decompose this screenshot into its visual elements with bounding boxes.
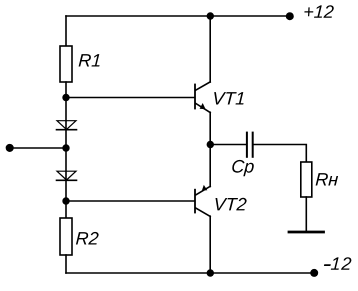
resistor Rn <box>301 162 312 197</box>
Cp right plate <box>252 133 254 157</box>
resistor R2 <box>60 218 72 255</box>
label R1 <box>79 54 100 66</box>
wire VT2 collector to -12 rail <box>209 216 211 273</box>
node VT2 base junction <box>62 197 69 204</box>
wire capacitor to Rn <box>254 145 307 163</box>
wire Rn to ground <box>305 197 307 232</box>
VT1 collector lead <box>196 82 211 90</box>
node output junction <box>207 141 214 148</box>
VT2 base bar <box>194 190 196 213</box>
node input junction <box>62 144 69 151</box>
VT1 base bar <box>194 85 196 109</box>
label VT2 <box>216 198 247 211</box>
label R2 <box>76 232 99 245</box>
label Rн <box>316 173 339 185</box>
wire VT1 base <box>66 97 194 99</box>
node -12 terminal <box>310 269 318 277</box>
wire top rail +12 <box>66 15 289 17</box>
wire output node to VT2 emitter <box>209 145 211 187</box>
node +12 rail junction <box>207 12 214 19</box>
resistor R1 <box>60 46 72 82</box>
diode VD1 <box>57 121 77 130</box>
label +12 <box>304 5 333 18</box>
wire VT2 base <box>66 200 194 202</box>
node +12 terminal <box>286 12 294 20</box>
transistor VT1 <box>195 16 210 145</box>
wire R2 to bottom rail <box>65 255 67 273</box>
label VT1 <box>214 92 243 104</box>
node -12 rail junction <box>207 269 214 276</box>
ground <box>289 231 324 234</box>
wire VT1 emitter to output node <box>209 112 211 144</box>
label -12 <box>324 257 352 270</box>
wire VT1 collector to +12 rail <box>209 16 211 82</box>
VT2 emitter arrow <box>202 185 207 191</box>
Cp left plate <box>246 133 248 157</box>
VT2 emitter lead <box>196 186 210 195</box>
wire input <box>9 147 66 149</box>
transistor VT2 <box>195 145 210 274</box>
wire R1 bottom through diodes to R2 <box>65 82 67 218</box>
capacitor Cp <box>247 133 253 157</box>
diode VD2 <box>57 171 77 180</box>
node input terminal <box>6 144 14 152</box>
wire output node to capacitor <box>210 144 246 146</box>
VT1 emitter arrow <box>200 103 206 109</box>
wire bottom rail -12 <box>66 272 314 274</box>
VT1 emitter lead <box>196 103 211 112</box>
VT2 collector lead <box>196 208 211 216</box>
wire left vertical to R1 <box>65 16 67 46</box>
node VT1 base junction <box>62 94 69 101</box>
label Ср <box>232 160 254 176</box>
